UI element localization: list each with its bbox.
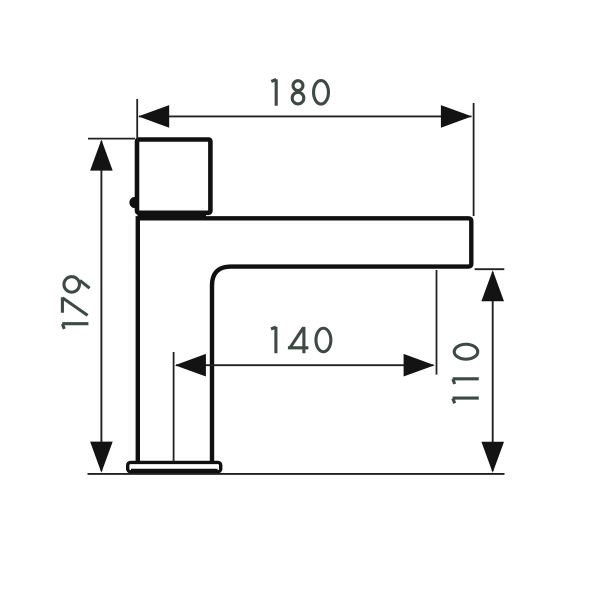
dim 110 arrow down [481,442,504,473]
label 179 digit 1 rotated [62,324,88,329]
dim 110 extension line top [475,268,505,270]
label 140 digit 1 [271,327,276,353]
dim 180 extension line right [473,103,475,216]
label 110 digit 0 rotated [454,344,478,359]
dim 140 extension line right [436,270,438,375]
dim 179 arrow up [90,140,113,171]
dim 110 line [492,272,494,471]
label 110 digit 1 rotated middle [453,379,479,384]
dim 180 arrow right [441,105,472,128]
lever dot [129,197,140,208]
faucet body [138,218,472,463]
dim 140 arrow right [404,354,435,377]
base plate bottom line [131,469,218,471]
dim 179 extension line top [88,138,135,140]
dim 140 extension line left [173,352,175,462]
faucet handle [137,140,210,213]
label 179 digit 7 rotated [62,297,87,315]
dim 179 line [100,141,102,471]
label 180 digit 8 [292,81,304,104]
label 179 digit 9 rotated [64,277,90,293]
dim 110 arrow up [481,270,504,301]
label 110 digit 1 rotated bottom [453,398,479,403]
base plate [128,462,221,471]
dim 179 arrow down [90,442,113,473]
dim 180 arrow left [138,105,169,128]
handle shadow band [138,214,207,218]
counter line [88,473,505,475]
label 140 digit 0 [316,328,331,352]
dim 180 line [139,115,472,117]
label 140 digit 4 [288,327,309,353]
dim 140 arrow left [175,354,206,377]
dim 140 line [176,364,434,366]
label 180 digit 1 [271,79,276,106]
label 180 digit 0 [314,81,329,105]
dim 180 extension line left [136,99,138,140]
